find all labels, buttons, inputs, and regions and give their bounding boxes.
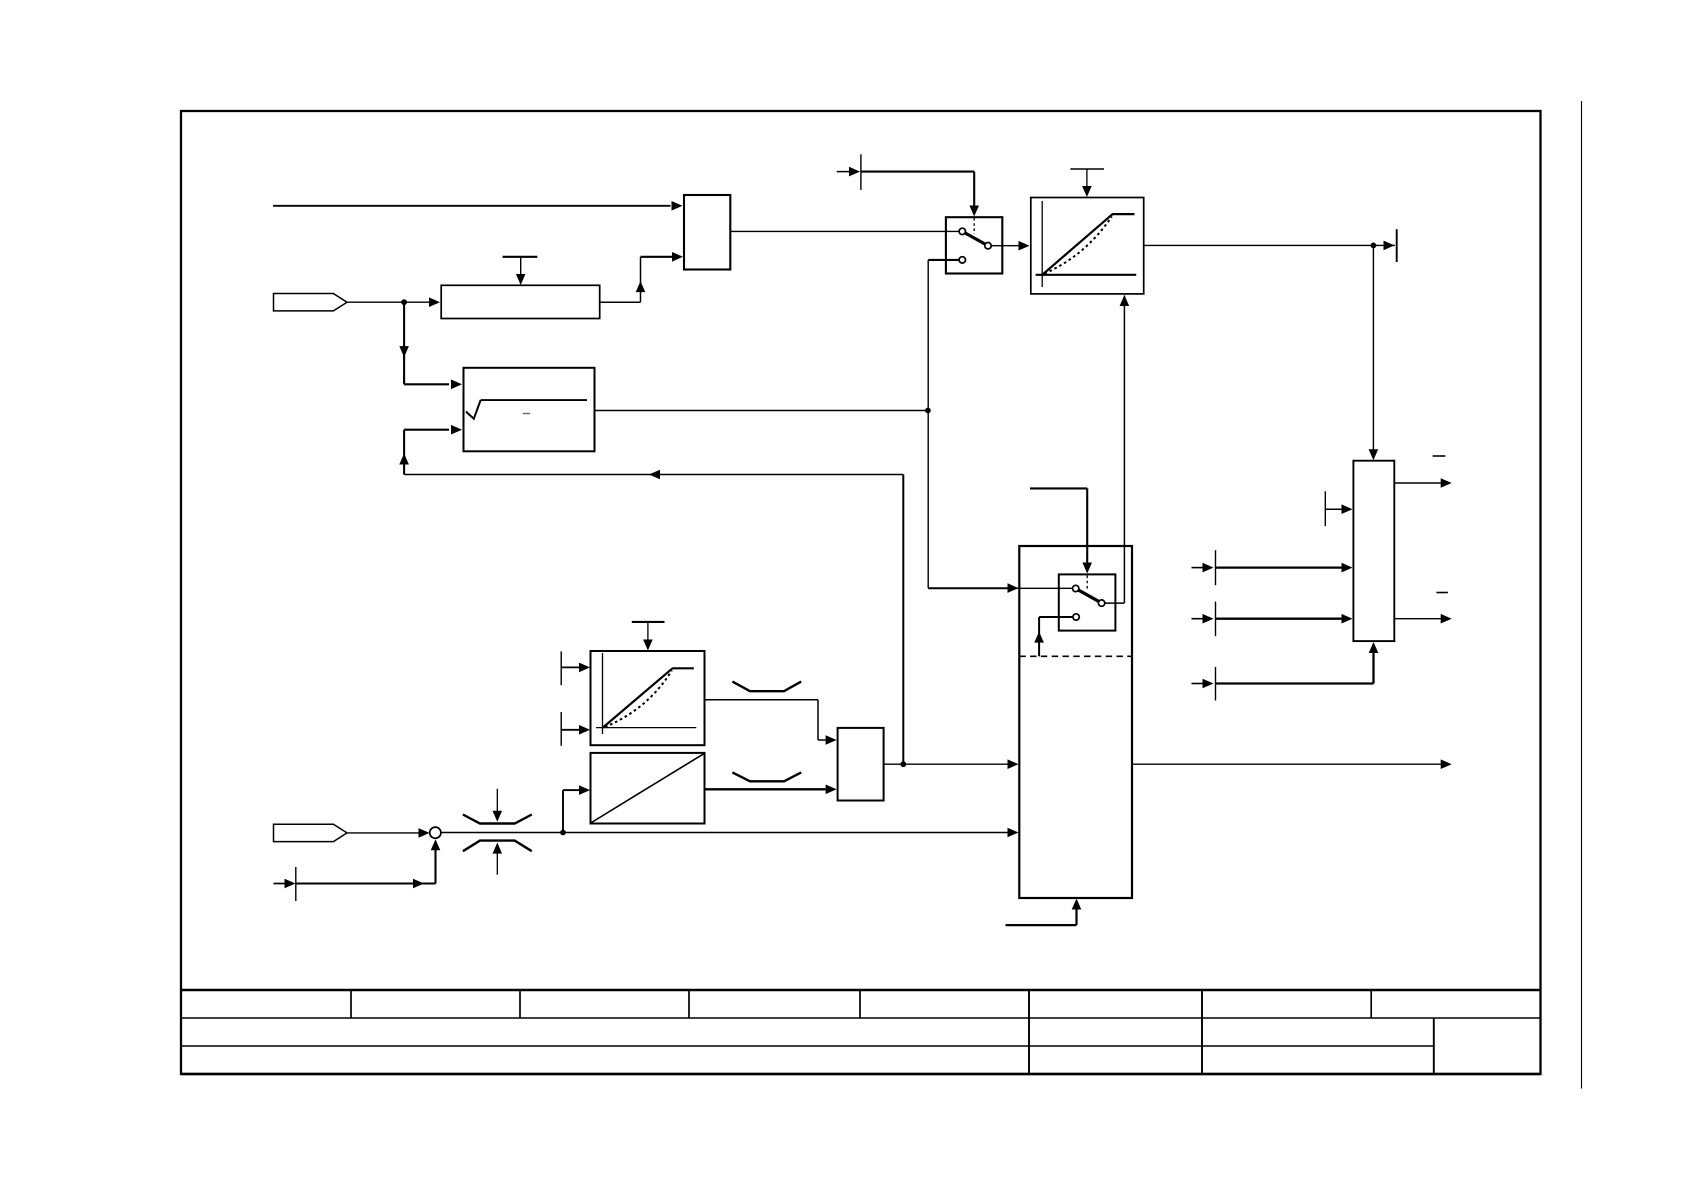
wire corner to sqrt input 1	[404, 383, 449, 385]
arrow into small box input 2	[826, 785, 837, 795]
limiter lower arrow	[493, 843, 503, 854]
drawing frame border	[181, 111, 1541, 1074]
arrow midline right before riser	[413, 879, 424, 889]
title block column divider d	[859, 990, 861, 1018]
arrow into summing circle bottom	[431, 839, 441, 850]
connector P2 tick bar	[295, 867, 297, 901]
block B smoothing element	[441, 285, 600, 318]
arrow midline up on feedback riser	[399, 454, 409, 465]
wire ramp block output	[1144, 244, 1395, 246]
arrow into tall block top	[1369, 449, 1379, 460]
switch S2 lower input port	[1073, 614, 1079, 620]
parameter L-connector to big block bottom	[1006, 909, 1077, 926]
switch S1 lever	[965, 233, 987, 245]
wire vertical up to block A level	[640, 257, 642, 302]
wire long input 1	[1216, 566, 1343, 568]
wire switch S2 output to riser	[1105, 602, 1125, 604]
small selector box	[838, 728, 884, 801]
wire T-bar to ramp block top	[1086, 169, 1088, 187]
connector tick bar char input 1	[560, 651, 562, 685]
arrow into linear block	[579, 785, 590, 795]
title block row line 1	[181, 1017, 1541, 1019]
arrow into termination bar	[1384, 241, 1395, 251]
wire char input 2	[561, 729, 579, 731]
page fold mark line	[1581, 101, 1583, 1089]
limiter upper arrow	[493, 811, 503, 822]
tall output block	[1353, 461, 1394, 641]
title block column divider h	[1433, 1018, 1435, 1074]
title block column divider e	[1028, 990, 1030, 1074]
arrow into big block bottom	[1072, 899, 1082, 910]
linear block diagonal	[592, 754, 704, 823]
characteristic block plateau	[672, 667, 694, 669]
limiter upper bracket	[463, 815, 532, 824]
arrow at long input 2 connector	[1203, 614, 1214, 624]
block sqrt calculator	[464, 368, 595, 452]
switch S2 lever	[1078, 590, 1099, 602]
frame/title-block separator line	[181, 989, 1541, 992]
arrow into block A lower input	[672, 252, 683, 262]
connector tick bar char input 2	[560, 712, 562, 746]
arrow at tall block output 1 end	[1441, 478, 1452, 488]
wire switch S1 lower port	[928, 259, 959, 261]
characteristic block baseline	[596, 727, 696, 729]
wire riser S2 output up to ramp block bottom	[1123, 296, 1125, 604]
wire connector P1 to switch S1 top	[861, 172, 974, 207]
arrow at connector P2	[285, 879, 296, 889]
ramp block baseline	[1036, 274, 1137, 276]
arrow midline down on J1-sqrt path	[399, 346, 409, 357]
characteristic block dashed s-curve	[605, 671, 672, 728]
title block bottom edge	[181, 1073, 1541, 1076]
curve bracket symbol 1	[732, 682, 801, 692]
minus label dash 2	[1436, 592, 1448, 594]
wire feedback up to sqrt input 2	[403, 430, 405, 475]
node J1 junction on chevron X1 wire	[401, 299, 407, 305]
ramp block dashed s-curve	[1045, 217, 1112, 274]
wire tall block param input	[1325, 508, 1342, 510]
input connector chevron X1	[274, 294, 348, 311]
linear block	[591, 753, 705, 824]
wire linear block output	[705, 788, 826, 790]
arrow at long input 3 connector	[1203, 679, 1214, 689]
parameter T-bar above ramp block	[1070, 168, 1104, 170]
arrow into ramp block top	[1082, 186, 1092, 197]
wire chevron X2 to summing circle	[347, 832, 419, 834]
wire J5 riser to linear block	[563, 790, 579, 832]
wire chevron X1 to block B	[347, 301, 429, 303]
node J2 junction sqrt output	[925, 408, 931, 414]
arrow up at switch S2 lower port	[1034, 632, 1044, 643]
arrow at long input 1 connector	[1203, 563, 1214, 573]
arrow into characteristic block input 1	[579, 663, 590, 673]
wire connector P2 to summing circle riser	[297, 883, 436, 885]
switch S1 box	[946, 217, 1002, 273]
arrow at tall block output 2 end	[1441, 614, 1452, 624]
wire corner to sqrt input 2	[404, 429, 449, 431]
wire J2 corner into big block	[928, 587, 1072, 589]
arrow into tall block bottom	[1369, 642, 1379, 653]
arrow at big block output end	[1441, 759, 1452, 769]
wire feedback riser from node J3	[902, 475, 904, 765]
arrow into block B	[429, 297, 440, 307]
characteristic block	[591, 651, 705, 745]
wire switch S1 output to ramp block	[991, 245, 1018, 247]
node J5 junction main line	[560, 830, 566, 836]
limiter lower bracket	[463, 841, 532, 852]
switch S1 output port	[985, 243, 991, 249]
characteristic block ramp line	[603, 668, 673, 727]
wire characteristic output	[705, 700, 826, 740]
arrow into characteristic block top	[643, 640, 653, 651]
switch S2 dashed control line	[1086, 576, 1088, 592]
arrow into ramp block	[1019, 241, 1030, 251]
arrow into switch S1 top	[969, 206, 979, 217]
connector tick bar long input 3	[1215, 667, 1217, 701]
big controller block	[1019, 546, 1132, 898]
connector tick bar long input 1	[1215, 550, 1217, 585]
arrow into tall block input 2	[1342, 614, 1353, 624]
wire long input 1 lead-in	[1192, 567, 1204, 569]
wire sqrt output to node J2	[595, 410, 928, 412]
input connector chevron X2	[274, 824, 348, 841]
summing circle	[430, 827, 441, 838]
node J3 junction small box output	[900, 761, 906, 767]
title block column divider c	[688, 990, 690, 1018]
connector P1 tick bar	[860, 154, 862, 190]
characteristic block y-axis	[602, 653, 604, 734]
title block column divider g	[1370, 990, 1372, 1018]
sqrt radical glyph	[466, 400, 481, 419]
ramp block y-axis	[1041, 201, 1043, 287]
node J4 junction ramp output	[1371, 243, 1377, 249]
block A min/max selector	[684, 195, 730, 270]
arrow at connector P1	[849, 167, 860, 177]
arrow into big block input 1	[1008, 583, 1019, 593]
wire switch S2 lower port	[1039, 617, 1073, 656]
arrow into sqrt block input 1	[451, 380, 462, 390]
wire block A output to switch S1	[730, 230, 959, 232]
wire lead-in to connector P2	[274, 883, 286, 885]
controller block dashed separator	[1019, 655, 1132, 657]
arrow into big block input 2	[1008, 759, 1019, 769]
wire big block output	[1132, 763, 1441, 765]
arrow into tall block param input	[1342, 504, 1353, 514]
termination bar T1	[1396, 229, 1398, 262]
wire block B output to corner	[600, 301, 641, 303]
arrow into block A upper input	[672, 201, 683, 211]
wire J1 down	[403, 302, 405, 384]
wire riser up to summing circle	[434, 844, 436, 884]
title block column divider b	[519, 990, 521, 1018]
arrow into switch S2 top	[1082, 563, 1092, 574]
arrow into tall block input 1	[1342, 563, 1353, 573]
limiter upper arrow stem	[496, 789, 498, 812]
parameter T-bar above characteristic block	[632, 621, 665, 623]
switch S2 box	[1059, 574, 1116, 630]
switch S2 output port	[1098, 600, 1104, 606]
arrow into block B top	[516, 274, 526, 285]
wire long input 3	[1216, 652, 1374, 684]
wire J4 down to tall block	[1372, 245, 1374, 450]
wire riser lower port to J2 and big box	[927, 260, 929, 588]
switch S1 upper input port	[959, 228, 965, 234]
connector tick bar long input 2	[1215, 602, 1217, 637]
parameter L-connector to switch S2	[1030, 488, 1087, 563]
minus label dash 1	[1433, 455, 1446, 457]
wire long input 2	[1216, 618, 1343, 620]
arrow midline up on block B output path	[636, 281, 646, 292]
wire long input 2 lead-in	[1192, 618, 1204, 620]
ramp-function generator block	[1031, 198, 1144, 294]
ramp block ramp line	[1042, 214, 1112, 275]
curve bracket symbol 2	[732, 772, 801, 781]
title block row line 2	[181, 1045, 1434, 1047]
arrow into big block input 3	[1008, 828, 1019, 838]
wire input line to block A upper input	[273, 205, 671, 207]
wire tall block output 2	[1394, 618, 1441, 620]
wire tall block output 1	[1394, 482, 1441, 484]
wire corner to block A lower input	[641, 256, 673, 258]
wire main setpoint line into big block	[441, 832, 1008, 834]
arrow into characteristic block input 2	[579, 725, 590, 735]
switch S1 dashed control line	[973, 218, 975, 234]
wire char input 1	[561, 666, 579, 668]
switch S1 lower input port	[959, 257, 965, 263]
arrow into ramp block bottom	[1120, 295, 1130, 306]
switch S2 upper input port	[1073, 585, 1079, 591]
arrow into sqrt block input 2	[451, 425, 462, 435]
connector tick bar tall block param	[1324, 491, 1326, 526]
parameter T-bar above block B	[503, 256, 538, 258]
title block column divider a	[350, 990, 352, 1018]
sqrt radical overline	[481, 399, 587, 401]
title block column divider f	[1201, 990, 1203, 1074]
wire parameter lead-in to connector P1	[837, 171, 849, 173]
limiter lower arrow stem	[496, 852, 498, 875]
wire feedback horizontal	[404, 474, 903, 476]
wire small box output to big block	[884, 763, 1008, 765]
arrow into summing circle	[419, 828, 430, 838]
wire T-bar to characteristic block top	[647, 622, 649, 641]
wire T-bar to block B top	[520, 257, 522, 275]
ramp block plateau	[1112, 213, 1134, 215]
wire long input 3 lead-in	[1192, 683, 1204, 685]
arrow into small box input 1	[826, 735, 837, 745]
sqrt minus sign	[523, 413, 530, 415]
arrow midline left on feedback line	[649, 470, 660, 480]
